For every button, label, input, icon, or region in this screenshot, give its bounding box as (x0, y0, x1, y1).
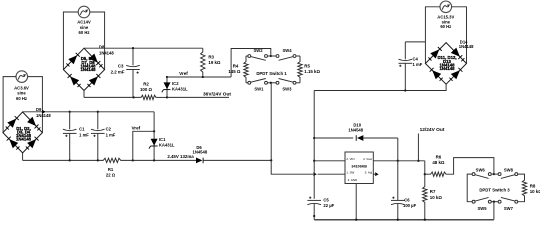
pin 4 Vout label (363, 157, 372, 161)
switch SW7 (498, 197, 518, 203)
label C2 1 mF (106, 127, 116, 138)
switch SW8 (498, 173, 518, 179)
svg-text:C6: C6 (404, 197, 410, 202)
label SW1 (254, 87, 264, 92)
node C3 top (132, 47, 134, 49)
wire R1 to D6 (122, 159, 196, 161)
bridge rectifier D11-D13 (425, 43, 466, 85)
wire bridge3 bottom rail left (314, 84, 446, 90)
svg-text:AC3.6V: AC3.6V (14, 85, 29, 90)
wire IC pin3 GND down (355, 184, 357, 220)
svg-text:1N4548: 1N4548 (193, 150, 208, 155)
svg-text:60 Hz: 60 Hz (440, 24, 451, 29)
svg-text:C1: C1 (79, 127, 85, 132)
wire SW5-SW7 common bottom (491, 201, 498, 203)
switch SW4 (276, 55, 296, 61)
svg-text:1 mF: 1 mF (79, 133, 89, 138)
wire IC pin5 stub with arrow (373, 172, 378, 176)
capacitor C5 22uF (307, 197, 321, 220)
capacitor C1 1mF (63, 112, 77, 161)
svg-text:10 kΩ: 10 kΩ (530, 189, 540, 194)
label 12/24V Out (420, 127, 445, 133)
wire R6 right up to switch3 (447, 158, 494, 175)
wire bridge1 bottom to rail (83, 91, 85, 98)
node C1 bottom (69, 159, 71, 161)
wire bridge2 bottom to rail (22, 153, 24, 161)
svg-text:60 Hz: 60 Hz (79, 30, 90, 35)
regulator U1 34106KB box (345, 152, 373, 184)
svg-text:R1: R1 (108, 167, 114, 172)
wire hop arrow on rail (42, 110, 45, 114)
svg-text:100 µF: 100 µF (403, 203, 417, 208)
label R4 145 ohm (228, 64, 241, 75)
wire hop arrow at VIN vertical (313, 172, 316, 176)
node C1 top (69, 111, 71, 113)
wire V2 left to bridge2 left vertex (3, 77, 16, 133)
node D10 branch (313, 137, 315, 139)
node switch1 top common (270, 55, 272, 57)
label D14 1N4148 (459, 39, 474, 49)
diode D6 1N4548 (196, 158, 271, 164)
switch SW2 (248, 55, 268, 61)
svg-text:R4: R4 (233, 64, 239, 69)
label SW5 (477, 206, 487, 211)
svg-text:1 mF: 1 mF (106, 133, 116, 138)
wire IC pin2 (314, 160, 345, 162)
wire top rail 36V bridge1 to R3 (84, 47, 203, 49)
svg-text:10 kΩ: 10 kΩ (430, 195, 443, 200)
node 12/24V stub tee (417, 160, 419, 162)
label IC1 KA431L (159, 137, 175, 147)
node C2 bottom (97, 159, 99, 161)
wire VIN vertical (313, 91, 315, 199)
svg-text:AC14V: AC14V (77, 20, 91, 25)
label R5 1.15 kohm (304, 64, 320, 75)
diode D10 1N4548 pointing left (314, 135, 398, 141)
node IC1 bottom (153, 159, 155, 161)
svg-text:R8: R8 (530, 184, 536, 189)
label V2 AC3.6V sine 60 Hz (14, 85, 29, 101)
svg-text:SW8: SW8 (504, 168, 514, 173)
node C2 top (97, 111, 99, 113)
label V1 AC14V sine 60 Hz (77, 20, 91, 36)
AC source V3 AC15.3V (440, 1, 452, 13)
node GND rail IC (355, 219, 357, 221)
svg-text:D9: D9 (36, 107, 42, 112)
wire R2 to IC2 (157, 96, 167, 98)
pin 5 Adj label (365, 170, 373, 174)
svg-text:145 Ω: 145 Ω (228, 69, 241, 74)
svg-text:1. SW: 1. SW (346, 170, 354, 174)
label R7 10 kohm (430, 189, 443, 200)
node 2.45V rail end (270, 159, 272, 161)
wire SW6-SW8 common top (491, 173, 498, 175)
svg-text:R7: R7 (430, 189, 436, 194)
resistor R4 145ohm (244, 56, 248, 83)
resistor R2 100ohm (140, 95, 157, 99)
capacitor C2 1mF (91, 112, 105, 161)
svg-text:1N4148: 1N4148 (36, 113, 51, 118)
wire 12/24V stub (417, 134, 419, 161)
wire 36V/24V out stub (167, 96, 229, 98)
AC source V2 AC3.6V (16, 71, 28, 83)
label DPDT Switch 3 (479, 187, 510, 192)
resistor R8 10k (518, 174, 527, 202)
node IC2 anode (166, 96, 168, 98)
svg-text:Vref: Vref (132, 126, 141, 131)
node out junction (397, 160, 399, 162)
label Vref bottom (132, 126, 141, 131)
node IC2 ref (166, 76, 168, 78)
label DPDT Switch 1 (256, 71, 287, 76)
wire R4 bottom to SW1 (246, 82, 248, 84)
svg-text:DPDT Switch 3: DPDT Switch 3 (479, 187, 510, 192)
svg-text:SW2: SW2 (253, 48, 263, 53)
svg-text:C3: C3 (118, 64, 124, 69)
label SW7 (504, 206, 514, 211)
label C6 100 uF (403, 197, 417, 208)
svg-text:Vref: Vref (179, 71, 188, 76)
svg-text:SW6: SW6 (476, 168, 486, 173)
svg-text:22 µF: 22 µF (323, 203, 334, 208)
node C3 bottom (132, 96, 134, 98)
node VIN to IC pin2 (313, 160, 315, 162)
wire switch3 left side (467, 174, 472, 202)
svg-text:2.2 mF: 2.2 mF (111, 70, 125, 75)
svg-text:4. Vout: 4. Vout (363, 157, 372, 161)
svg-text:R5: R5 (304, 64, 310, 69)
wire out to R6 corner (398, 160, 425, 162)
resistor R7 10k (423, 174, 427, 220)
svg-text:1.15 kΩ: 1.15 kΩ (304, 69, 320, 74)
wire SW1-SW3 common bottom (268, 82, 276, 84)
svg-text:C5: C5 (323, 197, 329, 202)
svg-text:1 mF: 1 mF (413, 62, 423, 67)
svg-text:SW3: SW3 (282, 87, 292, 92)
label SW4 (282, 48, 292, 53)
node Vref sense (132, 159, 134, 161)
label C3 2.2 mF (111, 64, 125, 75)
label R2 100 ohm (140, 81, 153, 91)
wire V1 right to bridge1 right vertex (90, 12, 105, 70)
svg-text:SW5: SW5 (477, 206, 487, 211)
node IC1 ref (153, 130, 155, 132)
label SW3 (282, 87, 292, 92)
wire V2 right to bridge2 right vertex (28, 77, 43, 133)
svg-text:1N4148: 1N4148 (459, 44, 474, 49)
svg-text:22 Ω: 22 Ω (106, 173, 116, 178)
wire SW2-SW4 common top (268, 55, 276, 57)
wire IC1 top (153, 112, 155, 132)
wire SW4 to R5 top (296, 55, 300, 57)
svg-text:19 kΩ: 19 kΩ (208, 60, 221, 65)
wire switch1 bottom down (270, 83, 272, 161)
svg-text:sine: sine (80, 25, 89, 30)
label R8 10 kohm (530, 184, 540, 195)
label SW2 (253, 48, 263, 53)
svg-text:5. Adj: 5. Adj (365, 170, 373, 174)
svg-text:1N4548: 1N4548 (348, 128, 363, 133)
svg-text:1N4148: 1N4148 (99, 51, 114, 56)
svg-text:SW1: SW1 (254, 87, 264, 92)
wire IC pin4 out (373, 160, 398, 162)
label SW8 (504, 168, 514, 173)
svg-text:100 Ω: 100 Ω (140, 87, 153, 92)
node switch3 bottom common (493, 201, 495, 203)
label D9 1N4148 (36, 107, 51, 118)
capacitor C3 (126, 48, 140, 97)
wire D10 down to out net (397, 138, 399, 161)
wire SW3 to R5 bottom (296, 82, 300, 84)
wire bottom rail to R1 (23, 159, 102, 161)
wire V3 left to bridge3 left vertex (425, 7, 440, 64)
wire Vref stub (133, 131, 154, 160)
svg-text:SW7: SW7 (504, 206, 514, 211)
wire switch1 net to IC pin1 (271, 160, 313, 174)
label D6 1N4548 (193, 145, 208, 155)
wire C4 tee (405, 41, 425, 43)
switch SW5 (472, 197, 491, 203)
svg-text:sine: sine (17, 91, 26, 96)
shunt regulator IC2 KA431L (162, 77, 171, 97)
node GND rail R7 (424, 219, 426, 221)
svg-text:DPDT Switch 1: DPDT Switch 1 (256, 71, 287, 76)
node R6 R7 junction (424, 173, 426, 175)
pin 1 SW label (346, 170, 354, 174)
label R1 22 ohm (106, 167, 116, 178)
node R3 bottom (202, 76, 204, 78)
svg-text:KA431L: KA431L (172, 86, 188, 91)
svg-text:R2: R2 (143, 81, 149, 86)
label 36V/24V Out (203, 91, 231, 97)
label C1 1 mF (79, 127, 89, 138)
svg-text:34106KB: 34106KB (351, 165, 367, 169)
shunt regulator IC1 KA431L (149, 131, 158, 160)
pin 2 VIN label (346, 157, 354, 161)
svg-text:C2: C2 (106, 127, 112, 132)
label R3 19 kohm (208, 54, 221, 65)
node switch3 top common (493, 173, 495, 175)
wire top rail bridge2 to IC1 corner (23, 111, 155, 113)
svg-text:D8: D8 (99, 45, 105, 50)
node switch1 bottom common (270, 82, 272, 84)
bridge rectifier D5-D8 (63, 48, 104, 90)
svg-text:60 Hz: 60 Hz (16, 96, 27, 101)
label Vref top (179, 71, 188, 76)
svg-text:KA431L: KA431L (159, 142, 175, 147)
capacitor C6 100uF (391, 161, 405, 220)
resistor R1 22ohm (102, 158, 122, 162)
label 2.45V 132ma (167, 154, 194, 159)
wire switch3 bottom down (493, 202, 495, 220)
wire bottom rail bridge1 to R2 (84, 96, 140, 98)
node C5 rail (313, 215, 315, 217)
svg-text:2. VIN: 2. VIN (346, 157, 354, 161)
svg-text:R6: R6 (436, 154, 442, 159)
svg-text:3. GND: 3. GND (348, 178, 358, 182)
bridge rectifier D1-D4 (3, 112, 43, 153)
label D8 1N4148 (99, 45, 114, 56)
switch SW6 (472, 173, 491, 179)
switch SW3 (276, 79, 296, 85)
wire to IC pin1 (318, 173, 345, 175)
label SW6 (476, 168, 486, 173)
label IC2 KA431L (172, 81, 188, 91)
capacitor C4 1mF (399, 42, 413, 91)
wire R4 top to SW2 (246, 55, 248, 57)
pin 3 GND label (348, 178, 358, 182)
wire V1 left to bridge1 left vertex (63, 12, 78, 70)
resistor R5 1.15k (298, 56, 302, 83)
svg-text:48 kΩ: 48 kΩ (432, 160, 445, 165)
resistor R3 19k (201, 48, 205, 77)
node C4 bottom (404, 89, 406, 91)
resistor R6 48k (425, 172, 447, 176)
label C5 22 uF (323, 197, 334, 208)
svg-text:SW4: SW4 (282, 48, 292, 53)
node GND rail C6 (397, 219, 399, 221)
label R6 48 kohm (432, 154, 445, 165)
svg-text:1N4148: 1N4148 (16, 137, 32, 142)
svg-text:R3: R3 (208, 54, 214, 59)
label V3 AC15.3V sine 60 Hz (437, 15, 454, 30)
wire ground rail (314, 219, 494, 221)
svg-text:12/24V Out: 12/24V Out (420, 127, 445, 133)
wire Vref rail (167, 76, 231, 78)
label C4 1 mF (413, 57, 423, 67)
wire corner down to R6 (424, 161, 426, 174)
switch SW1 (248, 79, 268, 85)
svg-text:1N4148: 1N4148 (439, 66, 455, 71)
wire Vref up to switch1 top (231, 49, 271, 78)
svg-text:2.45V 132ma: 2.45V 132ma (167, 154, 194, 159)
part number 34106KB (351, 165, 367, 169)
wire V3 right to bridge3 right vertex (452, 7, 467, 64)
label D10 1N4548 (348, 123, 363, 133)
svg-text:36V/24V Out: 36V/24V Out (203, 91, 231, 97)
AC source V1 AC14V (78, 6, 90, 18)
svg-text:1N4148: 1N4148 (80, 67, 96, 72)
